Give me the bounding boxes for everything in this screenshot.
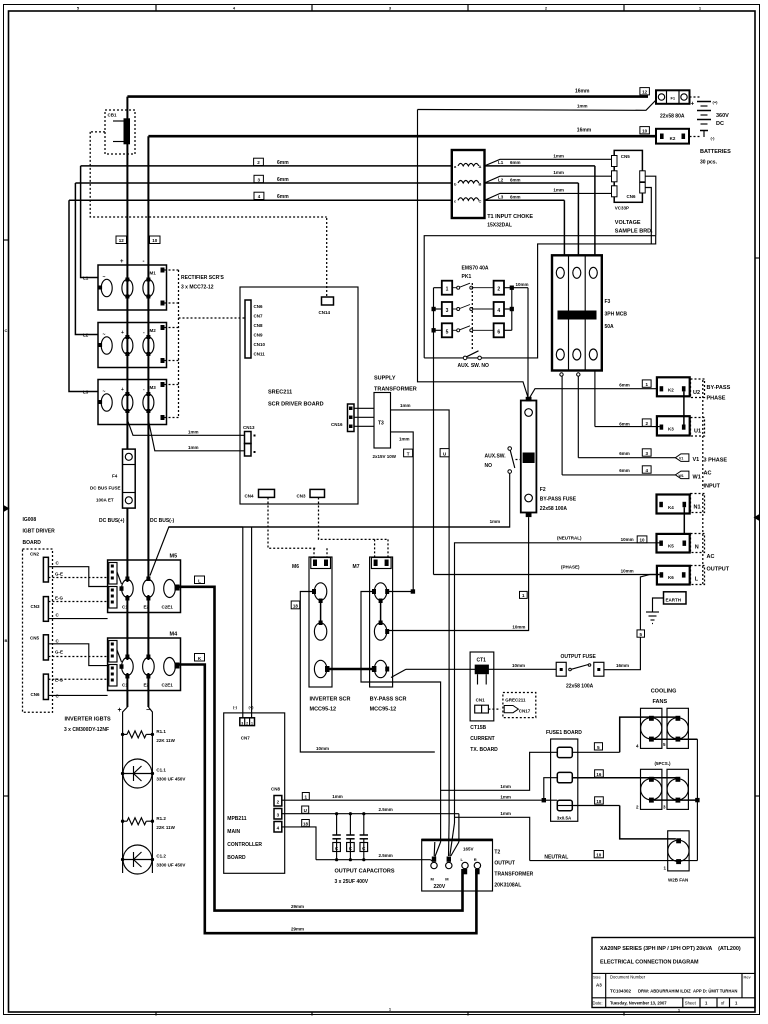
pads M6/M7 link (325, 666, 376, 672)
svg-text:-: - (143, 259, 145, 265)
IGBT module M4 (108, 632, 181, 691)
wire 1mm F1 sense (418, 100, 657, 110)
svg-text:Size: Size (593, 975, 602, 980)
fuse output (556, 654, 604, 690)
svg-text:4: 4 (497, 308, 500, 314)
svg-text:1mm: 1mm (553, 170, 564, 175)
wire PK1 output bus 10mm (504, 282, 529, 330)
contactor K4 (657, 495, 690, 514)
wire 1mm sense a (485, 153, 612, 166)
svg-text:CN3: CN3 (297, 494, 306, 499)
svg-text:L3: L3 (83, 390, 89, 395)
wire PK1 out to F2 top (527, 288, 529, 398)
svg-text:CN8: CN8 (271, 787, 280, 792)
svg-text:29mm: 29mm (291, 927, 304, 932)
svg-text:6mm: 6mm (510, 195, 521, 200)
wire fuse2 feed branch (500, 778, 557, 803)
connector CN4 (245, 489, 275, 498)
fan 5 (663, 708, 688, 748)
svg-text:V1: V1 (693, 457, 700, 463)
connector CN2 (30, 552, 109, 587)
svg-text:22K 11W: 22K 11W (156, 825, 175, 830)
svg-text:10: 10 (639, 538, 645, 543)
wire PK1 input bus (432, 288, 442, 333)
svg-text:DRW: ABDURRAHIM ILDIZ APP D:: DRW: ABDURRAHIM ILDIZ APP D: ÜMIT TURHAN (638, 989, 737, 994)
svg-text:ELECTRICAL CONNECTION DIAGRAM: ELECTRICAL CONNECTION DIAGRAM (600, 960, 699, 966)
label + / - above M1 (120, 259, 145, 265)
wire number 10 (dc-) (150, 236, 161, 244)
svg-text:K4: K4 (668, 505, 674, 510)
svg-text:3: 3 (241, 721, 243, 725)
svg-text:PK1: PK1 (462, 274, 472, 280)
svg-text:GREC211: GREC211 (505, 698, 526, 703)
svg-text:M7: M7 (353, 564, 360, 570)
fan 1 (W2B) (663, 831, 689, 883)
svg-text:MPB211: MPB211 (227, 816, 246, 822)
svg-text:VOLTAGE: VOLTAGE (615, 220, 641, 226)
wire DC bus - vertical (147, 136, 149, 581)
fuse F1 (656, 90, 690, 119)
svg-text:Rev: Rev (744, 975, 751, 980)
svg-text:T2: T2 (494, 850, 500, 856)
svg-text:220V: 220V (434, 884, 446, 890)
connector CN3 (31, 596, 109, 622)
svg-text:CN2: CN2 (30, 552, 39, 557)
svg-text:C1.1: C1.1 (156, 768, 166, 773)
contactor K2 (battery) (656, 129, 689, 144)
wire K2-K3 tie (683, 391, 685, 424)
title block (592, 938, 755, 1008)
wire number 1 (F2-M7) (520, 591, 528, 598)
svg-text:C2E1: C2E1 (162, 683, 174, 688)
svg-text:3 x MCC72-12: 3 x MCC72-12 (181, 285, 214, 291)
svg-text:CT1: CT1 (477, 658, 487, 664)
svg-text:22K 11W: 22K 11W (156, 738, 175, 743)
wire left drop to L3 (69, 200, 98, 391)
connector CN7 (233, 705, 255, 741)
svg-text:DC: DC (716, 121, 724, 127)
svg-text:A: A (479, 164, 482, 169)
svg-text:C2E1: C2E1 (162, 605, 174, 610)
svg-text:BY-PASS: BY-PASS (707, 385, 731, 391)
capacitor C1.1 (121, 759, 186, 788)
wire number 4 (254, 192, 289, 200)
wire F2 to K2 (528, 389, 659, 400)
svg-text:1mm: 1mm (577, 104, 588, 109)
svg-text:FUSE1 BOARD: FUSE1 BOARD (546, 730, 582, 736)
svg-text:6mm: 6mm (510, 177, 521, 182)
wire fuse1 to fans 4/5 (572, 717, 678, 752)
svg-text:(NEUTRAL): (NEUTRAL) (557, 536, 582, 541)
svg-text:M2: M2 (150, 328, 157, 333)
svg-text:B: B (5, 638, 8, 643)
wire number U (CN8) (302, 806, 309, 813)
svg-text:MCC95-12: MCC95-12 (370, 707, 397, 713)
svg-text:22x58 100A: 22x58 100A (566, 684, 594, 690)
board MPB211 (224, 713, 285, 873)
svg-text:16mm: 16mm (575, 89, 590, 95)
svg-text:MAIN: MAIN (227, 829, 240, 835)
wire CN7 plus (251, 527, 253, 718)
svg-text:~: ~ (103, 332, 106, 338)
svg-text:CB1: CB1 (108, 113, 117, 118)
wire label L (195, 576, 205, 584)
svg-text:22x58 80A: 22x58 80A (660, 114, 685, 120)
svg-text:E-G: E-G (55, 596, 64, 601)
wire input phase R (net 2) (81, 165, 452, 167)
svg-text:22x58 100A: 22x58 100A (540, 506, 568, 512)
wire fan-in diagonals to T2 (431, 822, 459, 862)
svg-text:M1: M1 (150, 271, 157, 276)
svg-text:18: 18 (596, 799, 602, 804)
svg-text:OUTPUT FUSE: OUTPUT FUSE (561, 654, 597, 660)
SCR module M2 (98, 323, 167, 368)
wire number 4 (619, 466, 651, 473)
svg-text:10mm: 10mm (516, 282, 529, 287)
svg-text:AC: AC (704, 471, 712, 477)
wire left drop to L2 (75, 183, 98, 335)
wire number 12 (640, 88, 650, 95)
SCR module M6 (292, 557, 332, 687)
svg-text:B: B (479, 181, 482, 186)
capacitor C1.2 (121, 845, 186, 874)
terminal flag V1 (675, 454, 699, 463)
wire W1 input (562, 474, 676, 476)
wire CN8 pin3 net U (282, 807, 459, 814)
svg-text:(PHASE): (PHASE) (561, 565, 580, 570)
wire V1 input (578, 457, 676, 459)
svg-text:L2: L2 (498, 177, 504, 182)
wire fuse1 feed (441, 752, 558, 790)
svg-text:U: U (304, 808, 307, 813)
svg-text:AUX.SW.: AUX.SW. (485, 454, 507, 460)
battery bank (690, 97, 732, 166)
svg-text:INPUT: INPUT (704, 484, 721, 490)
wire number 3 (254, 175, 289, 183)
capacitor C b (346, 812, 354, 861)
svg-text:1mm: 1mm (399, 437, 410, 442)
svg-text:NEUTRAL: NEUTRAL (544, 854, 568, 860)
svg-text:CN5: CN5 (30, 636, 39, 641)
wire number 3 (619, 449, 651, 456)
wire T3 out net U (391, 403, 450, 822)
svg-text:10mm: 10mm (512, 663, 525, 668)
svg-text:R1.1: R1.1 (156, 729, 166, 734)
svg-text:Tuesday, November 13, 2007: Tuesday, November 13, 2007 (610, 1001, 667, 1006)
capacitor C a (332, 812, 340, 861)
board IG008 IGBT driver (23, 517, 56, 712)
svg-text:R: R (474, 857, 477, 862)
label INVERTER SCR (310, 697, 351, 713)
wire label box T (404, 449, 413, 457)
wire 1mm sense c (485, 187, 612, 200)
svg-text:RECTIFIER SCR'S: RECTIFIER SCR'S (181, 275, 225, 281)
svg-text:+: + (118, 707, 122, 714)
svg-text:SCR DRIVER BOARD: SCR DRIVER BOARD (268, 402, 324, 408)
svg-text:W2B FAN: W2B FAN (668, 878, 688, 883)
wire output fuse to K6 (604, 575, 660, 670)
dashed IO bracket input (702, 380, 704, 489)
svg-text:1mm: 1mm (553, 153, 564, 158)
svg-text:1mm: 1mm (188, 445, 199, 450)
svg-text:16mm: 16mm (616, 663, 629, 668)
svg-text:360V: 360V (716, 113, 729, 119)
transformer T3 (354, 376, 417, 460)
svg-text:W1: W1 (679, 474, 684, 478)
svg-text:1mm: 1mm (500, 811, 511, 816)
svg-text:COOLING: COOLING (651, 689, 677, 695)
wire CN8 pin4 net 18 (282, 827, 316, 860)
capacitor bank bottom wire (316, 859, 431, 861)
svg-text:(-): (-) (711, 136, 716, 141)
wire number 2 (619, 419, 651, 427)
svg-text:M4: M4 (170, 632, 179, 638)
svg-text:CN14: CN14 (319, 310, 331, 315)
svg-text:3: 3 (446, 308, 449, 314)
wire number 18 (M6) (291, 601, 300, 609)
wire 1mm CN13 a (127, 420, 244, 435)
earth symbol (646, 592, 686, 624)
svg-text:3 x 25UF 400V: 3 x 25UF 400V (335, 879, 369, 885)
wire DC- run to K2 (148, 135, 656, 138)
svg-text:10: 10 (152, 238, 158, 243)
svg-text:12: 12 (119, 238, 125, 243)
svg-text:16mm: 16mm (577, 128, 592, 134)
svg-text:6mm: 6mm (277, 194, 289, 200)
svg-text:SREC211: SREC211 (268, 390, 292, 396)
svg-text:12: 12 (642, 90, 648, 95)
contactor PK1 (442, 266, 504, 350)
svg-text:3x0.5A: 3x0.5A (557, 816, 572, 821)
svg-text:FANS: FANS (653, 699, 668, 705)
contactor K6 (657, 566, 690, 585)
wire number 16 (fan) (595, 770, 604, 777)
svg-text:AC: AC (707, 554, 715, 560)
svg-text:EMS70 40A: EMS70 40A (462, 266, 489, 272)
breaker F3 (552, 255, 627, 370)
svg-text:C: C (479, 199, 482, 204)
svg-text:10mm: 10mm (621, 568, 634, 573)
wire number 1 (CN8) (302, 793, 309, 800)
svg-text:M5: M5 (170, 554, 178, 560)
svg-text:M3: M3 (150, 385, 157, 390)
svg-text:1mm: 1mm (332, 794, 343, 799)
svg-text:F2: F2 (540, 487, 546, 493)
svg-text:+: + (121, 387, 124, 393)
contactor K5 (657, 534, 690, 553)
wire L1 6mm (485, 160, 595, 166)
svg-text:2: 2 (497, 287, 500, 293)
svg-text:CN1: CN1 (476, 698, 485, 703)
SCR module M1 (98, 265, 167, 310)
svg-text:V1: V1 (679, 457, 683, 461)
wire neutral run (530, 854, 698, 860)
svg-text:1mm: 1mm (188, 429, 199, 434)
svg-text:3 PHASE: 3 PHASE (704, 458, 728, 464)
board SREC211 (240, 287, 358, 504)
wire fuse3 to fan 1 (557, 806, 676, 839)
svg-text:F4: F4 (112, 474, 118, 479)
wire sample to loop (pin3) (645, 176, 656, 235)
svg-text:F1: F1 (670, 95, 675, 100)
svg-text:2.5mm: 2.5mm (379, 853, 393, 858)
svg-text:(5PCS.): (5PCS.) (655, 761, 672, 766)
wire label box U (440, 449, 449, 457)
wire number 1 (619, 380, 651, 388)
wire F3 pole1 to W1 (561, 376, 563, 475)
svg-text:1mm: 1mm (500, 795, 511, 800)
svg-text:16: 16 (596, 772, 602, 777)
wire number 12 (dc+) (116, 236, 127, 244)
wire F3 feed pole2 (577, 183, 579, 257)
svg-text:6mm: 6mm (510, 160, 521, 165)
wire M4 output K (177, 665, 476, 934)
wire F2 aux 1mm (169, 473, 510, 527)
SCR module M3 (98, 380, 167, 425)
connector CN6 (driver) (31, 674, 109, 699)
wire cap top corner (458, 814, 460, 842)
svg-text:1mm: 1mm (490, 519, 501, 524)
contactor K3 (657, 416, 690, 435)
dashed link CB1 to CN14 (90, 132, 327, 217)
svg-text:2x15V 10W: 2x15V 10W (373, 454, 397, 459)
svg-text:+: + (121, 330, 124, 336)
node N (691, 534, 705, 553)
wire K3 input (595, 426, 660, 428)
wire T3 out net T (391, 432, 414, 592)
connector strip CN6-CN11 (245, 300, 266, 358)
label + - at chain top (118, 707, 151, 714)
contactor K2 bypass (657, 377, 690, 396)
svg-text:2: 2 (246, 721, 248, 725)
wire DC+ M5 to M4 to chain (126, 595, 128, 660)
svg-text:K2: K2 (670, 136, 676, 141)
svg-text:A3: A3 (596, 983, 602, 988)
svg-text:U: U (443, 451, 446, 456)
wire neutral to K5 (455, 536, 660, 824)
svg-text:10mm: 10mm (316, 746, 329, 751)
svg-text:6mm: 6mm (619, 421, 630, 426)
wire M6-M7 thick link (327, 668, 375, 671)
svg-text:6mm: 6mm (619, 468, 630, 473)
svg-text:10: 10 (642, 129, 648, 134)
svg-text:Sheet: Sheet (685, 1001, 697, 1006)
svg-text:CN7: CN7 (241, 736, 250, 741)
node L (691, 566, 705, 585)
wire number 2 (254, 158, 290, 166)
connector CN13 (243, 425, 256, 456)
svg-text:W1: W1 (693, 475, 701, 481)
svg-text:U2: U2 (693, 390, 700, 396)
wire number 18 (fan) (595, 797, 604, 804)
wire F1 sense drop (418, 110, 529, 399)
svg-text:3 x CM300DY-12NF: 3 x CM300DY-12NF (64, 727, 109, 733)
current transformer CT1 (470, 652, 500, 721)
transformer T2 (422, 839, 493, 891)
wire K4-K5 tie (683, 507, 685, 544)
svg-text:CN16: CN16 (331, 422, 343, 427)
wire label K (195, 654, 205, 662)
svg-text:~: ~ (103, 389, 106, 395)
wire F2 bottom to M7 c2 (387, 517, 529, 630)
svg-text:BY-PASS SCR: BY-PASS SCR (370, 697, 407, 703)
connector GREC211 CN17 (503, 693, 536, 718)
fuse F2 bypass (521, 397, 577, 517)
wire input phase T (net 4) (69, 199, 452, 201)
wire E2 sense diagonal (150, 527, 243, 576)
label BY-PASS PHASE (707, 385, 731, 402)
svg-text:K3: K3 (668, 427, 674, 432)
svg-text:N: N (695, 545, 699, 551)
wire F3 pole2 to V1 (577, 376, 579, 458)
node U2 (691, 379, 705, 398)
svg-text:K5: K5 (668, 544, 674, 549)
wire phase to K6 (434, 565, 660, 575)
wire M5 output L (177, 587, 463, 911)
wire 1mm sense b (485, 170, 612, 183)
label 3 PHASE AC INPUT (704, 458, 728, 490)
svg-text:3300 UF 450V: 3300 UF 450V (156, 777, 185, 782)
connector CN8 (271, 787, 282, 833)
label rectifier SCRs (181, 275, 225, 291)
wire 1mm CN13 b (148, 420, 244, 451)
svg-text:1mm: 1mm (553, 187, 564, 192)
svg-text:XA20NP SERIES (3PH INP / 1PH O: XA20NP SERIES (3PH INP / 1PH OPT) 20kVA … (600, 946, 741, 952)
svg-text:AUX. SW. NO: AUX. SW. NO (458, 363, 490, 369)
wire number 18 (CN8) (302, 820, 310, 827)
IGBT module M5 (108, 554, 181, 613)
wire input phase S (net 3) (75, 182, 451, 184)
svg-text:6mm: 6mm (277, 160, 289, 166)
fan 4 (636, 708, 662, 748)
SCR module M7 (353, 557, 393, 687)
wire F3 feed pole1 (563, 200, 565, 257)
wire number 10 (neutral) (637, 536, 647, 543)
svg-text:CURRENT: CURRENT (470, 736, 494, 742)
svg-text:3300 UF 450V: 3300 UF 450V (156, 863, 185, 868)
terminal flag W1 (675, 471, 700, 480)
dashed IO bracket output (702, 494, 704, 584)
svg-text:CN6: CN6 (31, 692, 40, 697)
svg-text:+: + (691, 102, 695, 108)
wire aux sense loop (424, 236, 656, 358)
svg-text:10: 10 (596, 853, 602, 858)
svg-text:18: 18 (303, 822, 309, 827)
svg-text:M6: M6 (292, 564, 299, 570)
svg-text:L3: L3 (498, 195, 504, 200)
svg-text:T1 INPUT CHOKE: T1 INPUT CHOKE (487, 214, 533, 220)
label OUTPUT CAPACITORS (335, 869, 395, 886)
wire PK1 phase drop to K6 (433, 288, 435, 575)
wire CT1 main (M7 c3 to output fuse) (406, 663, 556, 670)
svg-text:OUTPUT: OUTPUT (707, 567, 730, 573)
svg-text:Document Number: Document Number (610, 975, 646, 980)
wire fuse2 to fans 2/3 (572, 777, 678, 779)
svg-text:L2: L2 (83, 333, 89, 338)
svg-text:EARTH: EARTH (666, 597, 682, 602)
svg-text:1: 1 (446, 287, 449, 293)
svg-text:10mm: 10mm (512, 625, 525, 630)
svg-text:(+): (+) (249, 705, 255, 710)
svg-text:K2: K2 (668, 388, 674, 393)
label BY-PASS SCR (370, 697, 407, 713)
svg-text:~: ~ (103, 275, 106, 281)
wire number 5 (fan) (594, 743, 602, 750)
capacitor C c (360, 812, 368, 861)
resistor R1.1 (121, 729, 176, 743)
svg-text:DC BUS FUSE: DC BUS FUSE (90, 486, 121, 491)
svg-text:BATTERIES: BATTERIES (700, 149, 731, 155)
